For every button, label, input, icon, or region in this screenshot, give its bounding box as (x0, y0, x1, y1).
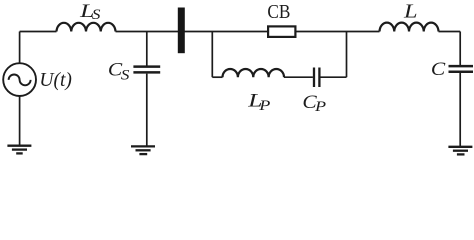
source U1 circle (3, 63, 36, 96)
wire left vertical above source (19, 32, 21, 64)
wire right drop of parallel section (346, 32, 348, 78)
wire main right of box (296, 31, 379, 33)
svg-text:S: S (92, 7, 101, 23)
wire left drop of parallel section (211, 32, 213, 78)
svg-text:CB: CB (267, 2, 290, 23)
ground middle (131, 146, 155, 154)
svg-text:L: L (403, 0, 418, 22)
inductor L (380, 23, 439, 32)
capacitor CS plates (133, 67, 160, 73)
bar (thick series element) (178, 8, 185, 54)
wire left vertical below source (19, 96, 21, 146)
wire branch left (212, 76, 222, 78)
CB box (268, 26, 295, 37)
wire top-left horizontal (20, 31, 57, 33)
inductor LS (57, 23, 116, 32)
wire right vertical top (459, 32, 461, 67)
source sine wave (9, 75, 31, 86)
svg-text:S: S (121, 67, 130, 83)
wire CS vertical bottom (146, 74, 148, 147)
svg-text:P: P (258, 97, 270, 114)
capacitor C plates (449, 66, 474, 72)
wire right vertical bottom (459, 73, 461, 146)
ground right (448, 147, 472, 155)
wire branch middle (284, 76, 313, 78)
svg-text:C: C (431, 59, 446, 80)
svg-text:P: P (314, 98, 326, 115)
capacitor CP plates (314, 68, 319, 88)
wire branch right (321, 76, 347, 78)
ground left (7, 146, 31, 154)
inductor LP (223, 69, 285, 77)
wire CS vertical top (146, 32, 148, 67)
wire main right end (439, 31, 461, 33)
svg-text:U(t): U(t) (39, 70, 72, 91)
wire main middle (116, 31, 268, 33)
